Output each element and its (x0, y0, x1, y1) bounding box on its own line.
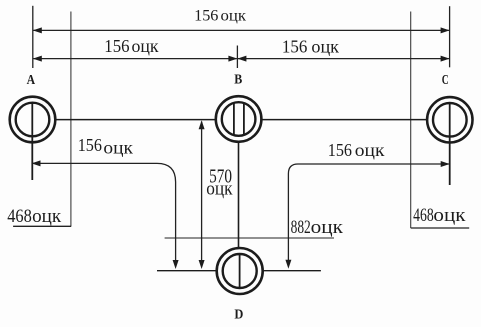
wire A to B (55, 119, 217, 121)
circle B chord line right (243, 103, 245, 135)
dimension 570 vertical (201, 122, 203, 261)
svg-text:C: C (442, 73, 449, 88)
svg-text:D: D (234, 308, 243, 323)
svg-text:156: 156 (282, 37, 307, 57)
circle B outer (216, 96, 262, 142)
left 468 bracket line (13, 225, 71, 227)
circle D outer (217, 248, 263, 294)
wire D centerline right stub (262, 270, 321, 272)
dimension 156 lower left leader (33, 163, 176, 260)
circle C outer (427, 97, 472, 142)
svg-text:156: 156 (328, 140, 352, 160)
svg-text:468: 468 (7, 206, 32, 227)
svg-text:оцк: оцк (103, 138, 133, 158)
circle A inner (16, 103, 50, 137)
svg-text:оцк: оцк (433, 205, 466, 226)
svg-text:156: 156 (78, 135, 102, 155)
svg-text:A: A (27, 73, 36, 88)
circle A outer (10, 97, 56, 143)
svg-text:оцк: оцк (206, 179, 233, 200)
svg-text:468: 468 (413, 205, 434, 226)
circle C diameter line (449, 103, 451, 185)
svg-text:оцк: оцк (355, 140, 385, 160)
right 468 bracket line (411, 227, 470, 229)
extension line at A top (32, 6, 34, 68)
circle A diameter line (31, 103, 33, 180)
svg-text:оцк: оцк (311, 37, 339, 57)
wire B to D (238, 142, 240, 249)
circle B inner (222, 102, 256, 136)
dimension line 156 overall (row 1) (34, 29, 449, 31)
dimension line 156 left (row 2) (34, 58, 237, 60)
extension line at C top (449, 6, 451, 67)
svg-text:B: B (234, 72, 242, 87)
circle D diameter line (239, 254, 241, 287)
svg-text:оцк: оцк (311, 217, 344, 238)
dimension 156 lower right leader (288, 164, 449, 260)
882 reference line (165, 237, 334, 239)
extension line right 468 (410, 12, 412, 229)
circle B chord line left (233, 103, 235, 135)
wire B to C (260, 119, 427, 121)
svg-text:156: 156 (194, 8, 218, 25)
svg-text:оцк: оцк (221, 8, 247, 25)
dimension line 156 right (row 2) (238, 58, 449, 60)
svg-text:оцк: оцк (32, 206, 62, 227)
circle C inner (433, 103, 467, 137)
extension line left 468 (70, 12, 72, 227)
svg-text:оцк: оцк (132, 36, 159, 56)
svg-text:882: 882 (291, 218, 311, 238)
wire D centerline left stub (157, 270, 217, 272)
circle D inner (223, 254, 257, 288)
extension tick at B (236, 46, 238, 69)
svg-text:156: 156 (104, 36, 129, 56)
